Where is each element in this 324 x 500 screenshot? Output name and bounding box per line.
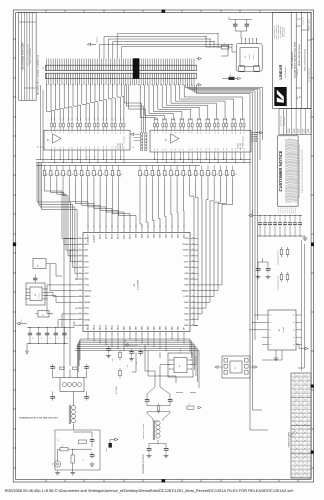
svg-text:B0: B0 (51, 147, 53, 149)
svg-text:DEMO CIRCUIT 1261A IS FOR CUST: DEMO CIRCUIT 1261A IS FOR CUSTOMER EVALU… (302, 149, 304, 193)
svg-text:O4: O4 (292, 419, 294, 422)
svg-text:GND: GND (184, 278, 189, 281)
svg-text:A5: A5 (72, 131, 74, 133)
svg-text:R39: R39 (115, 118, 117, 121)
svg-text:AIN+: AIN+ (84, 243, 89, 246)
svg-text:A10: A10 (94, 131, 96, 134)
svg-text:O4: O4 (296, 423, 298, 426)
funnel rails (147, 405, 170, 407)
buffer U5 top pin stubs (153, 129, 155, 130)
cap C10 (140, 349, 142, 352)
svg-text:A14: A14 (214, 131, 216, 134)
svg-text:A3: A3 (166, 131, 168, 133)
svg-text:Fax: (408)434-0507: Fax: (408)434-0507 (280, 26, 282, 38)
revision history table frame (19, 12, 36, 100)
svg-text:B12: B12 (206, 148, 208, 151)
svg-text:GND: GND (184, 324, 189, 327)
clock funnel wires (147, 384, 155, 397)
svg-text:A13: A13 (209, 131, 211, 134)
left rails from bus to IC side (37, 163, 75, 262)
right edge rails (301, 240, 303, 371)
connector J1 upper row body (46, 65, 197, 70)
svg-text:R39: R39 (68, 118, 70, 121)
wires connector top to oscillator area (100, 44, 233, 58)
svg-text:Q0: Q0 (293, 315, 295, 317)
vdd cap row rails (257, 215, 302, 217)
ext ref cap C8 (108, 346, 110, 349)
border zone ticks left (13, 38, 16, 40)
svg-text:C3: C3 (41, 337, 43, 339)
U7 right pins (296, 314, 302, 316)
svg-text:O4: O4 (292, 435, 294, 438)
oscillator area drop wires (205, 37, 207, 48)
svg-text:DIR: DIR (42, 146, 44, 148)
border zone ticks bottom (45, 480, 47, 483)
svg-text:R39: R39 (51, 118, 53, 121)
svg-text:R39: R39 (59, 118, 61, 121)
transformer T2 windings (156, 421, 160, 425)
svg-text:PGA: PGA (84, 313, 89, 316)
svg-text:Y2: Y2 (244, 56, 247, 58)
svg-text:C5: C5 (58, 337, 60, 339)
resistor R41 (38, 311, 49, 318)
crystal T3 body (230, 361, 242, 373)
revision history table columns (21, 12, 23, 100)
bypass capacitor C36 (233, 23, 237, 25)
svg-text:VDD: VDD (184, 272, 189, 275)
svg-text:O4: O4 (296, 439, 298, 442)
clock buffer U7 body (268, 310, 296, 350)
svg-text:O4: O4 (296, 463, 298, 466)
svg-text:T3: T3 (234, 367, 237, 369)
svg-text:O4: O4 (296, 374, 298, 377)
BK net arrow (299, 348, 305, 350)
svg-text:B1: B1 (54, 147, 56, 149)
svg-text:B13: B13 (106, 146, 108, 149)
ferrite bead FB2 (221, 45, 229, 49)
svg-text:B15: B15 (115, 146, 117, 149)
T3 side arrows (218, 366, 222, 368)
svg-text:C6: C6 (67, 337, 69, 339)
svg-text:O4: O4 (296, 415, 298, 418)
svg-text:A15: A15 (115, 131, 117, 134)
svg-text:GND: GND (84, 324, 89, 327)
T2 output caps (148, 446, 150, 449)
svg-text:Milpitas, CA 95035-7417: Milpitas, CA 95035-7417 (276, 24, 278, 39)
svg-text:O4: O4 (296, 431, 298, 434)
svg-text:C4: C4 (49, 337, 51, 339)
customer notice paragraph text lines (285, 139, 287, 203)
svg-text:B18: B18 (232, 148, 234, 151)
svg-text:VDD: VDD (184, 237, 189, 240)
net arrow connector lower right (197, 84, 199, 86)
svg-text:B4: B4 (171, 148, 173, 150)
J2 input connector (54, 461, 60, 467)
transformer T1 windings (62, 382, 66, 386)
svg-text:CLK+: CLK+ (184, 255, 190, 258)
svg-text:O4: O4 (300, 387, 302, 390)
buffer U5 box (150, 130, 251, 152)
svg-text:A11: A11 (98, 131, 100, 134)
svg-text:B17: B17 (226, 148, 228, 151)
version table section markers (311, 385, 314, 388)
svg-text:O4: O4 (300, 435, 302, 438)
svg-text:O4: O4 (296, 407, 298, 410)
input cap C12 (52, 364, 54, 367)
svg-text:1630 McCarthy Blvd.: 1630 McCarthy Blvd. (274, 25, 276, 39)
svg-text:O4: O4 (300, 378, 302, 381)
svg-text:9/30/08: 9/30/08 (304, 129, 306, 134)
svg-text:B0: B0 (154, 148, 156, 150)
svg-text:A20: A20 (240, 131, 242, 134)
svg-text:O4: O4 (296, 399, 298, 402)
svg-text:AIN-: AIN- (84, 249, 88, 252)
svg-text:O4: O4 (292, 451, 294, 454)
svg-text:33: 33 (236, 173, 238, 175)
svg-text:O4: O4 (308, 459, 310, 462)
bus to row B stubs (44, 165, 46, 168)
connector J1 pin ticks and stubs (46, 65, 48, 70)
svg-text:O4: O4 (308, 475, 310, 478)
svg-text:A9: A9 (192, 131, 194, 133)
approvals strip dividers (282, 109, 284, 135)
bypass capacitor C37 (245, 23, 249, 25)
svg-text:B6: B6 (180, 148, 182, 150)
clock out net arrow (198, 406, 201, 409)
svg-text:DB10: DB10 (117, 324, 120, 330)
svg-text:O4: O4 (308, 387, 310, 390)
svg-text:O4: O4 (292, 467, 294, 470)
svg-text:O4: O4 (308, 403, 310, 406)
svg-text:A21: A21 (244, 131, 246, 134)
matching network wires (58, 449, 61, 461)
vdd cap row caps (259, 216, 261, 223)
matching shunt resistor (71, 455, 74, 463)
svg-text:B2: B2 (60, 147, 62, 149)
svg-text:DIR: DIR (43, 146, 45, 148)
svg-text:O4: O4 (304, 463, 306, 466)
svg-text:U6: U6 (178, 365, 181, 367)
svg-text:DA14: DA14 (105, 233, 108, 239)
title block outer frame (273, 12, 312, 108)
vdd cap row left arrow (252, 215, 257, 217)
U3 top bypass cap (33, 277, 37, 279)
svg-text:A11: A11 (200, 131, 202, 134)
svg-text:DA15: DA15 (99, 233, 102, 239)
border center marker left (13, 243, 16, 247)
svg-text:O4: O4 (304, 415, 306, 418)
border center marker top (162, 10, 166, 13)
svg-text:R39: R39 (120, 118, 122, 121)
buffer to bus stubs (51, 153, 53, 160)
resistor row B right group (139, 170, 142, 175)
svg-text:VDD: VDD (84, 272, 89, 275)
svg-text:O4: O4 (296, 447, 298, 450)
svg-text:O4: O4 (308, 378, 310, 381)
svg-text:A15: A15 (218, 131, 220, 134)
svg-text:VDD: VDD (84, 260, 89, 263)
svg-text:O4: O4 (292, 395, 294, 398)
border center marker bottom (162, 479, 166, 482)
svg-text:DB13: DB13 (99, 324, 102, 330)
pullup resistors group 1 (280, 249, 283, 254)
oscillator Y2 body (240, 48, 258, 67)
U7 left pins (262, 314, 268, 316)
ADC U2 bottom pins and names (87, 332, 89, 338)
title block vertical dividers (290, 12, 292, 108)
svg-text:A1: A1 (157, 131, 159, 133)
svg-text:MABAES0060 ECT-J50 MINI-CIRC: MABAES0060 ECT-J50 MINI-CIRCUITS (20, 417, 59, 420)
svg-text:CLKOUT-: CLKOUT- (93, 234, 96, 243)
crystal T3 footprint (222, 356, 250, 378)
U7 bottom wires (262, 350, 282, 360)
svg-text:R39: R39 (77, 118, 79, 121)
svg-text:R39: R39 (123, 118, 125, 121)
svg-text:O4: O4 (292, 427, 294, 430)
resistor row A right group (153, 123, 155, 127)
svg-text:DB12: DB12 (105, 324, 108, 330)
svg-text:DA13: DA13 (111, 233, 114, 239)
size box divider (296, 87, 301, 89)
svg-text:A17: A17 (123, 131, 125, 134)
svg-text:O4: O4 (304, 407, 306, 410)
svg-text:DA10: DA10 (129, 233, 132, 239)
svg-text:TIMING: TIMING (182, 289, 190, 292)
svg-text:VDD: VDD (184, 307, 189, 310)
svg-text:A7: A7 (183, 131, 185, 133)
svg-text:Q1: Q1 (293, 322, 295, 324)
rev box divider (296, 25, 301, 27)
net arrow 3.3V left (20, 323, 27, 325)
IC bottom pin stubs to bus (87, 338, 89, 340)
svg-text:A4: A4 (68, 131, 70, 133)
svg-text:LT1763: LT1763 (39, 293, 41, 298)
left rail down arrow (26, 344, 28, 352)
svg-text:O4: O4 (292, 387, 294, 390)
buffer U4 top pin stubs (51, 129, 53, 130)
T1 wires (63, 366, 65, 378)
svg-text:O4: O4 (300, 395, 302, 398)
svg-text:O4: O4 (304, 382, 306, 385)
svg-text:B7: B7 (80, 147, 82, 149)
svg-text:B7: B7 (183, 148, 185, 150)
svg-text:R39: R39 (103, 118, 105, 121)
buffer U4 bottom pin stubs (51, 150, 53, 153)
fan wires row B to IC top pins (45, 178, 63, 218)
svg-text:SENSE: SENSE (84, 289, 92, 292)
svg-text:B4: B4 (68, 147, 70, 149)
connector J1 polarization key (black) (133, 58, 139, 78)
svg-text:A1: A1 (54, 131, 56, 133)
svg-text:LINEAR: LINEAR (278, 64, 283, 79)
T2 output grounds (148, 454, 150, 456)
svg-text:LVDS: LVDS (184, 295, 190, 298)
svg-text:A0: A0 (154, 131, 156, 133)
svg-text:R39: R39 (63, 118, 65, 121)
fan wires row B right to IC (140, 178, 142, 227)
svg-text:DITH: DITH (84, 307, 89, 310)
svg-text:O4: O4 (304, 423, 306, 426)
analog input wires from IC (64, 239, 75, 367)
svg-text:U7: U7 (278, 329, 281, 331)
svg-text:O4: O4 (304, 399, 306, 402)
svg-text:ENCODE CLOCK: ENCODE CLOCK (142, 454, 145, 474)
xor gate U6 body (174, 358, 187, 373)
wire caps bottom link (235, 30, 247, 32)
svg-text:A14: A14 (111, 131, 113, 134)
svg-text:Q4: Q4 (293, 344, 295, 346)
version table columns (294, 373, 296, 478)
svg-text:A0: A0 (51, 131, 53, 133)
svg-text:A8: A8 (86, 131, 88, 133)
connector J1 bottom junction dots (46, 84, 47, 85)
svg-text:B14: B14 (214, 148, 216, 151)
input cap C13 (86, 364, 88, 367)
svg-text:CUSTOMER NOTICE: CUSTOMER NOTICE (278, 150, 283, 191)
left bundle wires into IC left pins (62, 218, 75, 239)
svg-text:CLK-: CLK- (184, 260, 189, 263)
svg-text:SHDN: SHDN (84, 301, 90, 304)
svg-text:THIS TECHNOLOGY AND THESE DESI: THIS TECHNOLOGY AND THESE DESIGNS ARE PR… (299, 144, 301, 197)
svg-text:DEMO CIRCUIT 1261A: DEMO CIRCUIT 1261A (298, 43, 301, 65)
svg-text:O4: O4 (292, 475, 294, 478)
svg-text:IN1: IN1 (269, 322, 271, 324)
svg-text:DATE: 9/30/2008 05:46:40p: DATE: 9/30/2008 05:46:40p (304, 49, 307, 71)
buffer U5 right side pin wires (251, 132, 257, 134)
cascade connector right half to row A right pairs (140, 85, 156, 119)
svg-text:O4: O4 (292, 411, 294, 414)
svg-text:U4: U4 (47, 139, 50, 141)
IC bottom bus left drops (79, 339, 81, 360)
left bus risers (40, 85, 42, 160)
decoupling cap row left rails (27, 327, 68, 329)
wire caps top link (229, 18, 252, 20)
border zone ticks right (311, 38, 314, 40)
svg-text:SHEET 1 OF 1: SHEET 1 OF 1 (308, 19, 311, 31)
svg-text:IN0: IN0 (269, 315, 271, 317)
ADC U2 left pins and names (75, 238, 83, 240)
U7 wires to rails (255, 314, 262, 316)
matching network grounds (57, 471, 59, 473)
customer notice box (278, 136, 299, 206)
input series resistors (60, 367, 65, 369)
svg-text:O4: O4 (300, 475, 302, 478)
resistor R33 right of connector (229, 77, 235, 80)
svg-text:O4: O4 (300, 459, 302, 462)
svg-text:www.linear.com: www.linear.com (282, 26, 284, 37)
svg-text:O4: O4 (292, 443, 294, 446)
connector J1 lower row body (46, 73, 197, 78)
svg-text:VCC GND: VCC GND (122, 143, 124, 149)
svg-text:B10: B10 (197, 148, 199, 151)
svg-text:A18: A18 (232, 131, 234, 134)
svg-text:O4: O4 (308, 419, 310, 422)
mid caps pair (257, 266, 259, 269)
svg-text:A9: A9 (89, 131, 91, 133)
buffer U4 gate triangle (53, 134, 62, 143)
ext clock net arrow (91, 43, 97, 45)
svg-text:A2: A2 (162, 131, 164, 133)
header JP1 net arrows (134, 133, 141, 135)
svg-text:B21: B21 (244, 148, 246, 151)
svg-text:B13: B13 (209, 148, 211, 151)
oscillator Y2 bottom pads (238, 65, 244, 71)
svg-text:9/30/08: 9/30/08 (289, 129, 291, 134)
buffer U5 gate triangle (171, 134, 180, 143)
svg-text:A2: A2 (60, 131, 62, 133)
header JP1 pin squares (141, 133, 143, 135)
svg-text:B19: B19 (235, 148, 237, 151)
scale box divider (301, 29, 307, 31)
revision history table row lines (19, 21, 36, 23)
svg-text:Phone: (408)432-1900: Phone: (408)432-1900 (278, 25, 280, 39)
svg-text:O4: O4 (300, 443, 302, 446)
vcm net arrow (128, 344, 138, 346)
svg-text:OVDD: OVDD (183, 249, 190, 252)
version table leader line (290, 431, 295, 437)
LT logo mark (274, 87, 286, 106)
svg-text:33: 33 (122, 173, 124, 175)
svg-text:R39: R39 (71, 118, 73, 121)
svg-text:R39: R39 (85, 118, 87, 121)
svg-text:A13: A13 (106, 131, 108, 134)
svg-text:B3: B3 (166, 148, 168, 150)
svg-text:J2: J2 (51, 463, 54, 465)
transformer T1 outline (60, 378, 84, 392)
svg-text:* VERSION TABLE: * VERSION TABLE (287, 431, 290, 448)
svg-text:Q2: Q2 (293, 329, 295, 331)
svg-text:LTC Confidential: LTC Confidential (284, 26, 286, 37)
bus line 3 (36, 164, 200, 166)
resistor R6 (119, 370, 122, 375)
svg-text:VCC GND: VCC GND (242, 143, 244, 149)
svg-text:9/30/08: 9/30/08 (299, 129, 301, 134)
svg-text:9/30/08: 9/30/08 (294, 129, 296, 134)
svg-text:A7: A7 (80, 131, 82, 133)
svg-text:9/30/2008 05:46:40p 1=0.98 C: 9/30/2008 05:46:40p 1=0.98 C:\Documents … (5, 488, 294, 493)
svg-text:A12: A12 (103, 131, 105, 134)
svg-text:O4: O4 (304, 471, 306, 474)
approvals strip frame (279, 109, 311, 135)
bus line 2 (36, 162, 251, 164)
xor gate U6 footprint (168, 353, 193, 377)
svg-text:A6: A6 (77, 131, 79, 133)
svg-text:O4: O4 (292, 459, 294, 462)
svg-text:A16: A16 (223, 131, 225, 134)
svg-text:GND: GND (184, 266, 189, 269)
svg-text:O4: O4 (296, 391, 298, 394)
funnel cap right (169, 397, 171, 400)
svg-text:IN4: IN4 (269, 344, 271, 346)
svg-text:O4: O4 (300, 419, 302, 422)
border center marker right (311, 243, 314, 247)
svg-text:A12: A12 (206, 131, 208, 134)
svg-text:O4: O4 (304, 391, 306, 394)
svg-text:B3: B3 (63, 147, 65, 149)
svg-text:OEB: OEB (184, 284, 189, 287)
svg-text:B11: B11 (200, 148, 202, 151)
transformer T2A vertical windings (71, 405, 75, 409)
matching resistor 24.9 (60, 448, 68, 451)
version table frame (291, 373, 311, 478)
sheet box divider (308, 39, 312, 41)
svg-text:O4: O4 (308, 435, 310, 438)
svg-text:GND: GND (184, 301, 189, 304)
funnel cap left (146, 397, 148, 400)
svg-text:OGND: OGND (183, 243, 190, 246)
clock funnel feed wires (154, 371, 156, 384)
U6 input wire (160, 364, 170, 366)
